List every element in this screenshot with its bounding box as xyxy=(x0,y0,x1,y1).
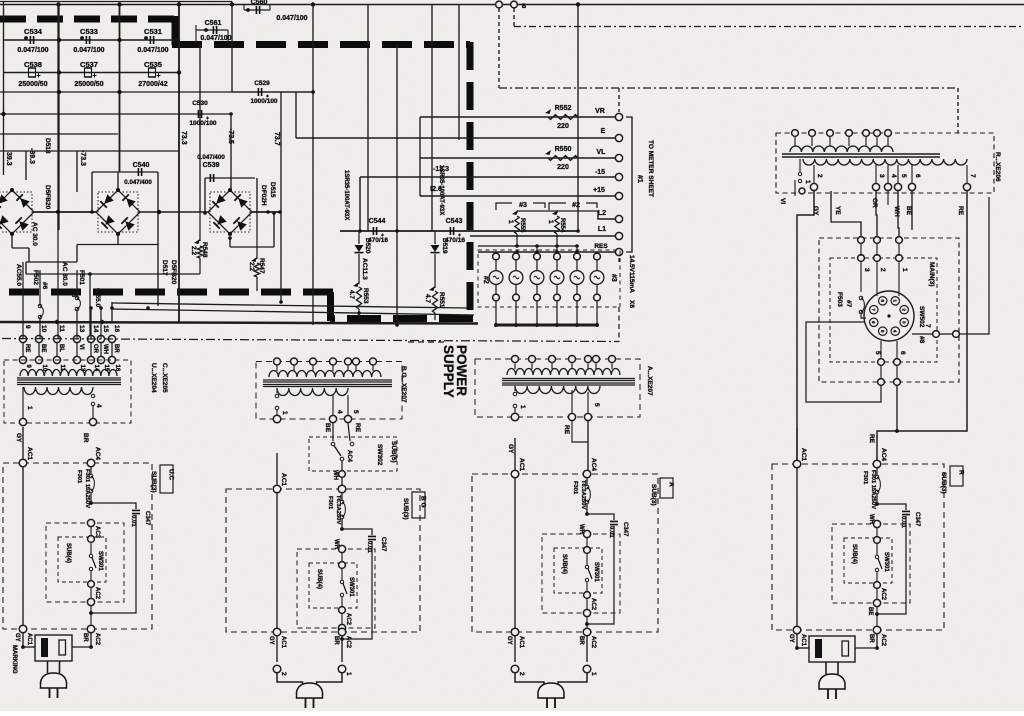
svg-text:1: 1 xyxy=(590,672,597,676)
svg-text:#1: #1 xyxy=(636,175,643,183)
wire D517 right arm xyxy=(140,211,208,213)
pin AC2 mid B G xyxy=(339,607,346,614)
dashed enclosure SUB(3) B G xyxy=(226,489,420,632)
svg-text:SW301: SW301 xyxy=(348,577,354,597)
svg-text:GY: GY xyxy=(506,636,512,645)
capacitor C529 1000/100 xyxy=(232,91,313,93)
svg-text:5: 5 xyxy=(874,351,881,355)
boxed label R xyxy=(950,466,963,486)
svg-text:6: 6 xyxy=(899,351,906,355)
svg-text:GY: GY xyxy=(268,636,274,645)
svg-text:D5FB20: D5FB20 xyxy=(170,260,177,285)
pin 4 transformer secondary xyxy=(884,183,891,190)
wire vline x90 to pin14 xyxy=(89,274,91,339)
svg-text:C529: C529 xyxy=(254,80,270,87)
pin cord 2 A xyxy=(514,636,516,662)
svg-text:1: 1 xyxy=(901,268,908,272)
lamp PL3 14.5V 115mA xyxy=(536,246,538,253)
svg-text:220: 220 xyxy=(557,164,569,171)
svg-text:C544: C544 xyxy=(369,218,386,225)
svg-text:BR: BR xyxy=(82,433,89,443)
svg-text:B G: B G xyxy=(420,496,427,508)
svg-text:4: 4 xyxy=(336,410,343,414)
pin AC4 U.C xyxy=(87,459,95,467)
shield boundary bold dashed (top-left block) xyxy=(0,16,178,23)
resistor R555 1 xyxy=(516,211,518,213)
svg-text:F502: F502 xyxy=(32,270,39,285)
transformer T303 top pins xyxy=(512,356,519,363)
wire WH drop xyxy=(898,191,899,237)
capacitor C537 25000/50 xyxy=(85,68,92,77)
svg-text:SW301: SW301 xyxy=(883,552,889,572)
lamp PL4 14.5V 115mA xyxy=(556,246,558,253)
pin AC2 bottom U.C xyxy=(87,625,95,633)
wire vline x281 down xyxy=(280,212,282,302)
svg-text:D5FB20: D5FB20 xyxy=(44,185,51,210)
svg-text:L2: L2 xyxy=(598,210,606,217)
dashed enclosure SUB(3) R xyxy=(772,464,944,630)
svg-text:RE: RE xyxy=(868,434,875,444)
svg-text:0.047/400: 0.047/400 xyxy=(197,154,225,161)
wire R AC1 column xyxy=(796,428,798,630)
capacitor C544 470/16 xyxy=(374,230,376,232)
wire RE column xyxy=(348,423,350,441)
transformer T501 secondary winding xyxy=(803,159,967,165)
pin AC2 bottom R xyxy=(873,626,881,634)
wire pin3 drop xyxy=(876,191,877,237)
switch SW302 SUB(5) dashed box xyxy=(309,437,397,471)
svg-text:T6.3A250V: T6.3A250V xyxy=(580,480,586,509)
svg-text:C347: C347 xyxy=(622,522,628,537)
pin AC1 bottom U.C xyxy=(19,625,27,633)
svg-text:SUB(5): SUB(5) xyxy=(390,441,397,463)
svg-text:4.7: 4.7 xyxy=(348,290,355,299)
capacitor C543 470/16 xyxy=(450,227,453,235)
svg-text:R555: R555 xyxy=(519,218,525,233)
wire dashed vline x619 upper xyxy=(618,88,620,112)
pin AC2 bottom B G xyxy=(338,628,346,636)
svg-text:RE: RE xyxy=(563,425,570,435)
svg-text:R554: R554 xyxy=(559,218,565,233)
wire dash-dot net top right xyxy=(514,26,1024,28)
svg-text:L1: L1 xyxy=(598,226,606,233)
wire dashed stub y342 xyxy=(408,341,448,343)
transformer T302 B.G XE207 dashed box xyxy=(256,362,402,420)
svg-text:BR: BR xyxy=(113,344,119,353)
svg-text:C347: C347 xyxy=(380,537,386,552)
svg-text:C...XE205: C...XE205 xyxy=(161,363,168,393)
svg-text:#2: #2 xyxy=(482,276,489,284)
diode D519 1SR35-100AT-93X xyxy=(434,231,436,244)
selector pins row upper xyxy=(858,237,865,244)
dashed enclosure SUB(3) A xyxy=(472,474,658,632)
wire YE drop xyxy=(831,191,861,237)
svg-text:#6: #6 xyxy=(41,282,48,290)
transformer T501 primary winding xyxy=(790,146,893,152)
svg-text:11: 11 xyxy=(58,325,65,332)
wire -15 line corner x360 xyxy=(359,177,361,231)
svg-text:SUB(4): SUB(4) xyxy=(561,554,567,574)
transformer T303 primary winding xyxy=(515,386,600,394)
wire vline x281 xyxy=(280,92,282,212)
svg-text:T6.3A250V: T6.3A250V xyxy=(335,495,341,524)
svg-text:MAIN(3): MAIN(3) xyxy=(928,262,935,287)
svg-text:SUB(3): SUB(3) xyxy=(650,484,657,506)
pin box edge R xyxy=(873,599,880,606)
pin AC4 B G xyxy=(338,485,346,493)
wire VR line xyxy=(420,116,615,118)
svg-text:10: 10 xyxy=(40,325,47,333)
svg-text:R: R xyxy=(958,470,965,475)
wire GY to AC1 xyxy=(797,191,814,460)
svg-text:WH: WH xyxy=(332,470,338,480)
wire AC4 column from selector xyxy=(896,385,898,431)
svg-text:AC1: AC1 xyxy=(800,448,807,461)
pin 11 lower connector xyxy=(53,356,60,363)
inner dashed box SUB(4) U.C xyxy=(58,537,106,582)
capacitor C540 0.047/400 xyxy=(92,171,158,173)
svg-text:F301: F301 xyxy=(327,496,333,510)
svg-text:SUB(4): SUB(4) xyxy=(851,544,857,564)
svg-text:F503: F503 xyxy=(836,292,843,307)
svg-text:0.01: 0.01 xyxy=(366,541,372,553)
svg-text:AC1: AC1 xyxy=(800,634,806,647)
svg-text:SUB(3): SUB(3) xyxy=(940,472,947,494)
svg-text:2: 2 xyxy=(879,268,886,272)
svg-text:SW301: SW301 xyxy=(97,551,103,571)
svg-text:AC1: AC1 xyxy=(518,636,524,649)
wire vline x315 xyxy=(312,5,314,326)
pin B upper xyxy=(496,1,503,8)
pin 1 transformer secondary xyxy=(799,188,805,194)
wire hline y231 mid block xyxy=(340,230,578,232)
svg-text:C534: C534 xyxy=(24,27,43,36)
resistor R553 4.7 xyxy=(358,254,360,284)
wire BE column xyxy=(332,423,334,441)
wire bridge D515 frame xyxy=(204,178,206,213)
svg-text:AC 30.0: AC 30.0 xyxy=(61,262,68,286)
svg-text:14.5V115mA: 14.5V115mA xyxy=(628,255,635,293)
wire vline x112 xyxy=(111,302,113,322)
wire vline x179 bus xyxy=(178,2,180,322)
switch SW301 A xyxy=(585,565,588,568)
svg-text:AC1: AC1 xyxy=(280,473,287,486)
pin 1 T301 xyxy=(19,418,26,425)
wire vline x58 to connector xyxy=(57,212,59,339)
resistor R552 220 xyxy=(548,115,578,120)
svg-text:1: 1 xyxy=(507,220,514,224)
pin AC4 A xyxy=(583,470,591,478)
wire hline bus y322 xyxy=(0,322,478,324)
selector pins row lower xyxy=(858,255,865,262)
svg-text:C543: C543 xyxy=(446,218,463,225)
svg-text:1: 1 xyxy=(547,220,554,224)
svg-text:C540: C540 xyxy=(133,162,150,169)
pin switch top R xyxy=(874,537,881,544)
svg-text:#3: #3 xyxy=(610,274,617,282)
svg-text:R550: R550 xyxy=(555,146,572,153)
svg-text:R547: R547 xyxy=(258,258,265,274)
svg-text:AC2: AC2 xyxy=(345,636,351,649)
svg-text:BE: BE xyxy=(905,206,912,216)
wire RES rail risers xyxy=(477,246,479,252)
wire lamp rail y252 dots xyxy=(515,250,519,254)
capacitor C560 0.047/100 xyxy=(244,9,270,11)
svg-text:AC11.3: AC11.3 xyxy=(361,258,368,280)
wire vline x91 x101 stubs xyxy=(90,308,92,339)
wire lamp top rail y246 xyxy=(478,245,577,247)
node junction dots on top bus xyxy=(56,2,60,6)
svg-text:BR: BR xyxy=(578,636,584,645)
svg-text:AC 30.0: AC 30.0 xyxy=(31,222,38,246)
svg-text:1000/100: 1000/100 xyxy=(189,120,216,127)
wire WH column to fuse xyxy=(341,461,343,485)
power cord R xyxy=(825,662,827,674)
svg-text:SW302: SW302 xyxy=(376,444,383,466)
svg-text:AC1: AC1 xyxy=(26,633,32,646)
transformer T501 core xyxy=(782,153,940,155)
pin box edge A xyxy=(583,609,590,616)
svg-text:-73.5: -73.5 xyxy=(227,128,234,144)
bridge rectifier D518 (left, partial) xyxy=(0,190,34,234)
svg-text:2.2: 2.2 xyxy=(190,246,197,255)
lamp PL2 14.5V 115mA xyxy=(515,252,517,253)
svg-text:SUPPLY: SUPPLY xyxy=(441,345,456,398)
power cord A xyxy=(515,673,544,687)
wire hline y114 xyxy=(0,113,231,115)
diode D520 1SR35-100AT-93X xyxy=(358,231,360,244)
capacitor C531 0.047/100 xyxy=(150,36,153,44)
wire vline x459 xyxy=(458,5,460,141)
svg-text:3: 3 xyxy=(878,174,885,178)
svg-text:-13.3: -13.3 xyxy=(433,166,449,173)
bracket #2 xyxy=(549,203,566,210)
svg-text:C538: C538 xyxy=(24,60,42,69)
svg-text:AC4: AC4 xyxy=(94,447,101,460)
wire hline y92 xyxy=(0,91,315,93)
svg-text:VL: VL xyxy=(597,149,607,156)
svg-text:#7: #7 xyxy=(845,300,852,308)
svg-text:BE: BE xyxy=(324,423,331,433)
svg-text:F301: F301 xyxy=(572,481,578,495)
bridge rectifier D517 xyxy=(96,190,140,234)
svg-text:#2: #2 xyxy=(572,202,580,209)
svg-text:R553: R553 xyxy=(362,288,369,304)
svg-text:SW301: SW301 xyxy=(593,562,599,582)
capacitor C533 0.047/100 xyxy=(86,36,89,44)
transformer T303 A XE207 dashed box xyxy=(475,359,640,417)
wire hline y151 xyxy=(0,150,179,152)
svg-text:F301 15A250V: F301 15A250V xyxy=(84,469,90,508)
wire RE drop to AC4 xyxy=(877,191,967,460)
pin box edge B G xyxy=(338,624,345,631)
pin 5 transformer secondary xyxy=(894,183,901,190)
pin AC2 bottom A xyxy=(583,628,591,636)
pin 16 lower connector xyxy=(108,356,115,363)
svg-text:1: 1 xyxy=(281,411,288,415)
transformer T302 top pins xyxy=(274,358,281,365)
voltage selector outer dashed box xyxy=(819,238,959,382)
svg-text:VI: VI xyxy=(779,198,786,204)
svg-text:73.3: 73.3 xyxy=(180,131,187,145)
resistor R547 2.2 xyxy=(256,213,258,259)
svg-text:F301 15A250V: F301 15A250V xyxy=(870,470,876,509)
svg-text:A...XE207: A...XE207 xyxy=(646,366,653,396)
svg-text:X6: X6 xyxy=(628,300,635,308)
pin cord 1 B G xyxy=(341,636,343,662)
wire bridge D517 frame xyxy=(91,172,93,213)
pin AC3 U.C xyxy=(87,519,94,526)
svg-text:BR: BR xyxy=(333,636,339,645)
svg-text:BR: BR xyxy=(868,634,874,643)
voltage selector inner dashed box MAIN(3) xyxy=(830,258,937,362)
wire D518 frame xyxy=(11,234,13,248)
wire BE drop xyxy=(911,191,913,230)
svg-text:GY: GY xyxy=(788,634,794,643)
pin AC2 mid U.C xyxy=(88,581,95,588)
wire D518 right arm to bus xyxy=(34,211,96,213)
svg-text:+15: +15 xyxy=(593,187,605,194)
pin 14 lower connector xyxy=(87,356,94,363)
svg-text:2: 2 xyxy=(816,174,823,178)
svg-text:VI: VI xyxy=(78,344,84,350)
inner dashed box SUB(4) A xyxy=(554,548,602,593)
svg-text:1: 1 xyxy=(519,405,526,409)
wire D515 right arm xyxy=(252,211,281,213)
wire vline x23 AC55.0 column xyxy=(22,262,24,339)
svg-text:AC2: AC2 xyxy=(345,613,351,626)
svg-text:73.7: 73.7 xyxy=(273,132,280,146)
svg-text:-73.3: -73.3 xyxy=(79,150,86,166)
svg-text:WH: WH xyxy=(578,524,584,534)
capacitor C530 1000/100 xyxy=(198,110,201,118)
switch SW301 U.C xyxy=(89,554,92,557)
svg-text:5: 5 xyxy=(352,410,359,414)
svg-text:4.7: 4.7 xyxy=(424,294,431,303)
wire dashed drop from pin xyxy=(498,8,500,88)
wire tap 7 to right xyxy=(912,197,989,334)
svg-text:D520: D520 xyxy=(364,238,371,254)
svg-text:GY: GY xyxy=(507,444,514,454)
wire A AC1 column xyxy=(514,438,516,632)
transformer T302 tap circles xyxy=(276,388,278,393)
transformer T303 secondary winding xyxy=(507,369,620,376)
svg-text:F301: F301 xyxy=(76,470,82,484)
wire vline x231 to bridge D515 xyxy=(230,114,232,190)
svg-text:SW502: SW502 xyxy=(918,306,925,328)
wire pair hline y302 xyxy=(112,303,468,308)
svg-text:MARKING: MARKING xyxy=(11,645,17,674)
pin AC1 bottom R xyxy=(793,626,801,634)
svg-text:AC55.0: AC55.0 xyxy=(15,264,22,286)
svg-text:6: 6 xyxy=(914,174,921,178)
svg-text:YE: YE xyxy=(834,206,841,215)
svg-text:1SR35-100AT-93X: 1SR35-100AT-93X xyxy=(343,170,349,220)
capacitor C347 0.01 B G xyxy=(342,529,372,535)
transformer T501 R...XE206 dashed box xyxy=(776,133,994,193)
svg-text:C530: C530 xyxy=(192,100,208,107)
capacitor C539 0.047/400 xyxy=(205,177,255,179)
mains plug B G xyxy=(297,683,323,698)
wire B G AC1 column xyxy=(276,453,278,632)
pins T302 1 4 5 xyxy=(332,395,334,415)
boxed label B G xyxy=(412,492,425,518)
pin switch top A xyxy=(584,547,591,554)
wire -15 line xyxy=(360,176,615,178)
svg-text:WH: WH xyxy=(893,206,900,217)
svg-text:R548: R548 xyxy=(201,242,208,258)
wire selector to SW502 xyxy=(876,291,878,296)
capacitor C534 0.047/100 xyxy=(30,36,33,44)
wire L1 line xyxy=(470,235,615,237)
svg-text:WH: WH xyxy=(102,344,108,354)
svg-text:C561: C561 xyxy=(205,20,222,27)
wire vline x58 left bus xyxy=(57,5,59,231)
wire hline y274 xyxy=(26,273,200,275)
wire T301 pins xyxy=(22,387,24,418)
pin 13 lower connector xyxy=(73,356,80,363)
wire VL line xyxy=(420,157,615,159)
wire selector return loop xyxy=(806,322,881,402)
svg-text:25000/50: 25000/50 xyxy=(74,81,103,88)
power cord U.C xyxy=(47,661,49,673)
pin 6 transformer secondary xyxy=(908,183,915,190)
svg-text:5: 5 xyxy=(593,403,600,407)
inner dashed box A xyxy=(542,534,620,613)
svg-text:9: 9 xyxy=(24,325,31,329)
inner dashed box B G xyxy=(297,549,375,628)
pin AC2 mid R xyxy=(874,582,881,589)
svg-text:16: 16 xyxy=(113,325,120,333)
pin switch top U.C xyxy=(88,536,95,543)
resistor R551 4.7 xyxy=(434,254,436,288)
svg-text:2: 2 xyxy=(518,672,525,676)
boxed label U.C xyxy=(160,465,173,493)
svg-text:-39.3: -39.3 xyxy=(28,148,35,164)
selector pins below switch xyxy=(878,359,885,366)
wire vline x578 xyxy=(577,5,579,232)
capacitor C347 0.01 R xyxy=(877,504,906,510)
fuse F301 R xyxy=(876,468,878,475)
pin 7 transformer secondary xyxy=(963,183,970,190)
svg-text:D519: D519 xyxy=(441,238,448,254)
wire E line xyxy=(296,137,615,139)
svg-text:0.047/100: 0.047/100 xyxy=(276,15,307,22)
wire vline x397 xyxy=(396,44,398,325)
fuse F301 U.C xyxy=(90,467,92,474)
svg-text:VR: VR xyxy=(595,108,605,115)
svg-text:GY: GY xyxy=(14,633,20,642)
capacitor C535 27000/42 xyxy=(149,68,156,77)
svg-text:15: 15 xyxy=(102,325,109,333)
svg-text:U.C: U.C xyxy=(168,469,175,481)
boxed label A xyxy=(660,478,673,498)
switch SW301 R xyxy=(875,555,878,558)
rotary switch SW502 #8 xyxy=(864,291,914,341)
svg-text:RE: RE xyxy=(957,206,964,216)
svg-text:39.3: 39.3 xyxy=(5,152,12,166)
svg-text:A: A xyxy=(668,482,675,487)
svg-text:2: 2 xyxy=(280,672,287,676)
pin AC1 A xyxy=(511,470,519,478)
svg-text:D515: D515 xyxy=(269,182,276,198)
svg-text:7: 7 xyxy=(924,324,931,328)
svg-text:SUB(3): SUB(3) xyxy=(150,471,157,493)
svg-text:OR: OR xyxy=(92,344,98,354)
svg-text:AC2: AC2 xyxy=(880,634,886,647)
wire +15 line xyxy=(420,195,615,197)
lamp PL6 14.5V 115mA xyxy=(596,252,598,253)
